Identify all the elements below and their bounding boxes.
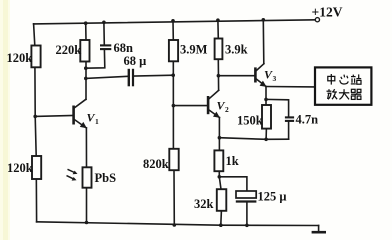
node: V3 base / V2 collector [217,74,221,78]
wire: 1k bottom to 32k junction [219,171,221,189]
resistor 32k [217,189,227,211]
node: 32k / ground rail [219,223,223,227]
wire: emitter coupling line V2 to 150k/4.7n bottoms [219,138,288,140]
node: rail junction 3.9k [216,18,220,22]
wire: V1 base wire [35,115,73,118]
svg-text:3: 3 [273,74,277,83]
svg-text:68n: 68n [114,41,134,55]
node: 68u / 3.9M branch [171,73,175,77]
chinese text zhong-xin-zhan (central station) [328,74,361,85]
wire: 68n bottom to 220k branch [86,49,105,68]
transistor V3 [255,64,276,87]
svg-text:+12V: +12V [312,5,343,20]
node: rail junction 3.9M [171,19,175,23]
wire: top supply rail [34,20,316,24]
wire: 3.9M / 820k branch [172,21,174,149]
resistor 3.9M [169,40,178,61]
svg-text:125 μ: 125 μ [258,190,287,204]
wire: 3.9k bottom to V2 collector [217,59,219,90]
svg-text:68 μ: 68 μ [124,54,147,68]
capacitor 68n [100,41,133,55]
svg-text:PbS: PbS [95,171,117,185]
wire: 125u bottom to ground rail [246,202,248,226]
wire: 4.7n bottom lead [288,122,290,139]
resistor 120k upper [31,46,40,68]
svg-text:2: 2 [225,105,229,114]
photoresistor PbS [83,167,92,187]
resistor 220k [80,40,89,62]
node: PbS / ground rail [85,221,89,225]
svg-text:120k: 120k [7,161,33,175]
node: 150k bottom / coupling [264,138,268,142]
node: V3 emitter / 150k / 4.7n [264,98,268,102]
wire: V1 emitter to PbS to ground rail [85,128,87,223]
node: 1k bottom / 32k / 125u [218,175,222,179]
svg-text:1: 1 [95,117,99,126]
chinese text fang-da-qi (amplifier) [327,89,362,99]
wire: V3 collector branch from rail [262,20,265,64]
svg-text:32k: 32k [194,197,214,211]
svg-text:220k: 220k [56,43,82,57]
wire: 32k bottom to ground rail [220,211,223,225]
wire: left vertical branch [34,24,37,222]
node: V2 base / 3.9M branch [172,104,176,108]
node: V1 base / left branch [33,115,37,119]
node: 220k / 68u [84,77,88,81]
scan edge yellow strip [0,0,10,240]
wire: V2 base wire [173,105,208,107]
node: 220k bottom / 68n [84,66,88,70]
capacitor 68u [124,54,147,86]
wire: 220k / V1 collector branch [85,23,87,99]
svg-text:3.9M: 3.9M [180,43,208,57]
wire: bottom ground rail [37,222,319,226]
node: rail junction 220k [84,21,88,25]
node: 820k / ground rail [173,223,177,227]
svg-text:120k: 120k [7,51,33,65]
svg-text:820k: 820k [143,157,169,171]
capacitor 125u electrolytic [236,190,287,204]
resistor 150k [262,105,271,129]
svg-text:1k: 1k [226,154,239,168]
svg-text:150k: 150k [237,114,263,128]
node: rail junction V3 collector [262,18,266,22]
node: rail junction 68n [102,21,106,25]
capacitor 4.7n [285,113,318,127]
wire: 68u right lead to 3.9M branch [134,74,174,77]
supply terminal +12V [315,18,319,22]
wire: 68u left lead [86,76,128,78]
transistor V2 [208,90,229,118]
ground [312,231,326,234]
wire: 4.7n top lead [266,99,289,116]
node: V2 emitter / coupling [218,136,222,140]
resistor 120k lower [32,156,41,179]
resistor 3.9k [215,39,223,60]
svg-text:4.7n: 4.7n [296,113,319,127]
transistor V1 [74,99,99,128]
wire: 3.9k branch from rail [217,20,219,38]
wire: 125u top lead [219,177,247,191]
wire: 68n branch from rail [103,22,105,45]
wire: 820k bottom to ground rail [173,170,175,225]
wire: ground stub [318,226,320,232]
svg-text:3.9k: 3.9k [225,43,248,57]
light arrow 1 [68,169,78,174]
wire: V3 emitter to amplifier box [266,86,315,88]
node: 125u / ground rail [245,224,249,228]
wire: 150k bottom lead [265,129,267,140]
wire: V3 base wire [218,75,255,77]
amplifier block box [315,67,371,104]
resistor 820k [169,149,178,170]
light arrow 2 [67,176,77,181]
wire: V2 emitter down to 1k [218,118,220,151]
resistor 1k [214,150,223,171]
wire: V3 emitter down to 150k [265,87,267,106]
